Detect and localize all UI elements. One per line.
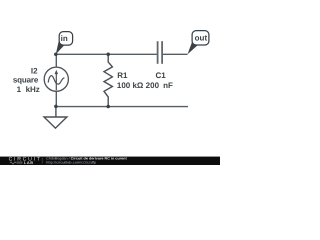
capacitor C1 (158, 41, 163, 64)
svg-text:200 nF: 200 nF (146, 81, 173, 90)
svg-text:square: square (13, 75, 39, 84)
wire top from junction R1 to C1 left plate (108, 53, 157, 55)
footer caption text (46, 157, 127, 165)
wire source bottom lead (55, 91, 57, 106)
wire source top lead (55, 54, 57, 67)
node gnd dot (54, 105, 58, 109)
wire bottom rail (56, 106, 188, 108)
flag out (188, 31, 209, 55)
svg-text:C1: C1 (155, 71, 166, 80)
svg-text:http://circuitlab.com/c/2s2dfp: http://circuitlab.com/c/2s2dfp (46, 161, 96, 165)
svg-text:1 kHz: 1 kHz (17, 85, 40, 94)
footer logo CIRCUIT LAB (9, 157, 43, 165)
wire top from C1 right plate to node out (162, 53, 187, 55)
junction node top (R1/top wire) (106, 53, 110, 57)
svg-text:R1: R1 (117, 71, 128, 80)
ground (44, 107, 67, 129)
current source I2 (44, 67, 68, 91)
svg-text:in: in (61, 34, 68, 43)
svg-text:LAB: LAB (24, 160, 34, 165)
junction node bottom (R1/bottom wire) (106, 105, 110, 109)
wire top from node in to junction R1 (56, 53, 108, 55)
svg-text:100 kΩ: 100 kΩ (117, 81, 144, 90)
resistor R1 (104, 54, 112, 106)
footer bar (0, 156, 220, 165)
svg-text:out: out (195, 34, 208, 43)
svg-text:I2: I2 (31, 66, 38, 75)
node in dot (54, 52, 58, 56)
flag in (56, 32, 73, 55)
